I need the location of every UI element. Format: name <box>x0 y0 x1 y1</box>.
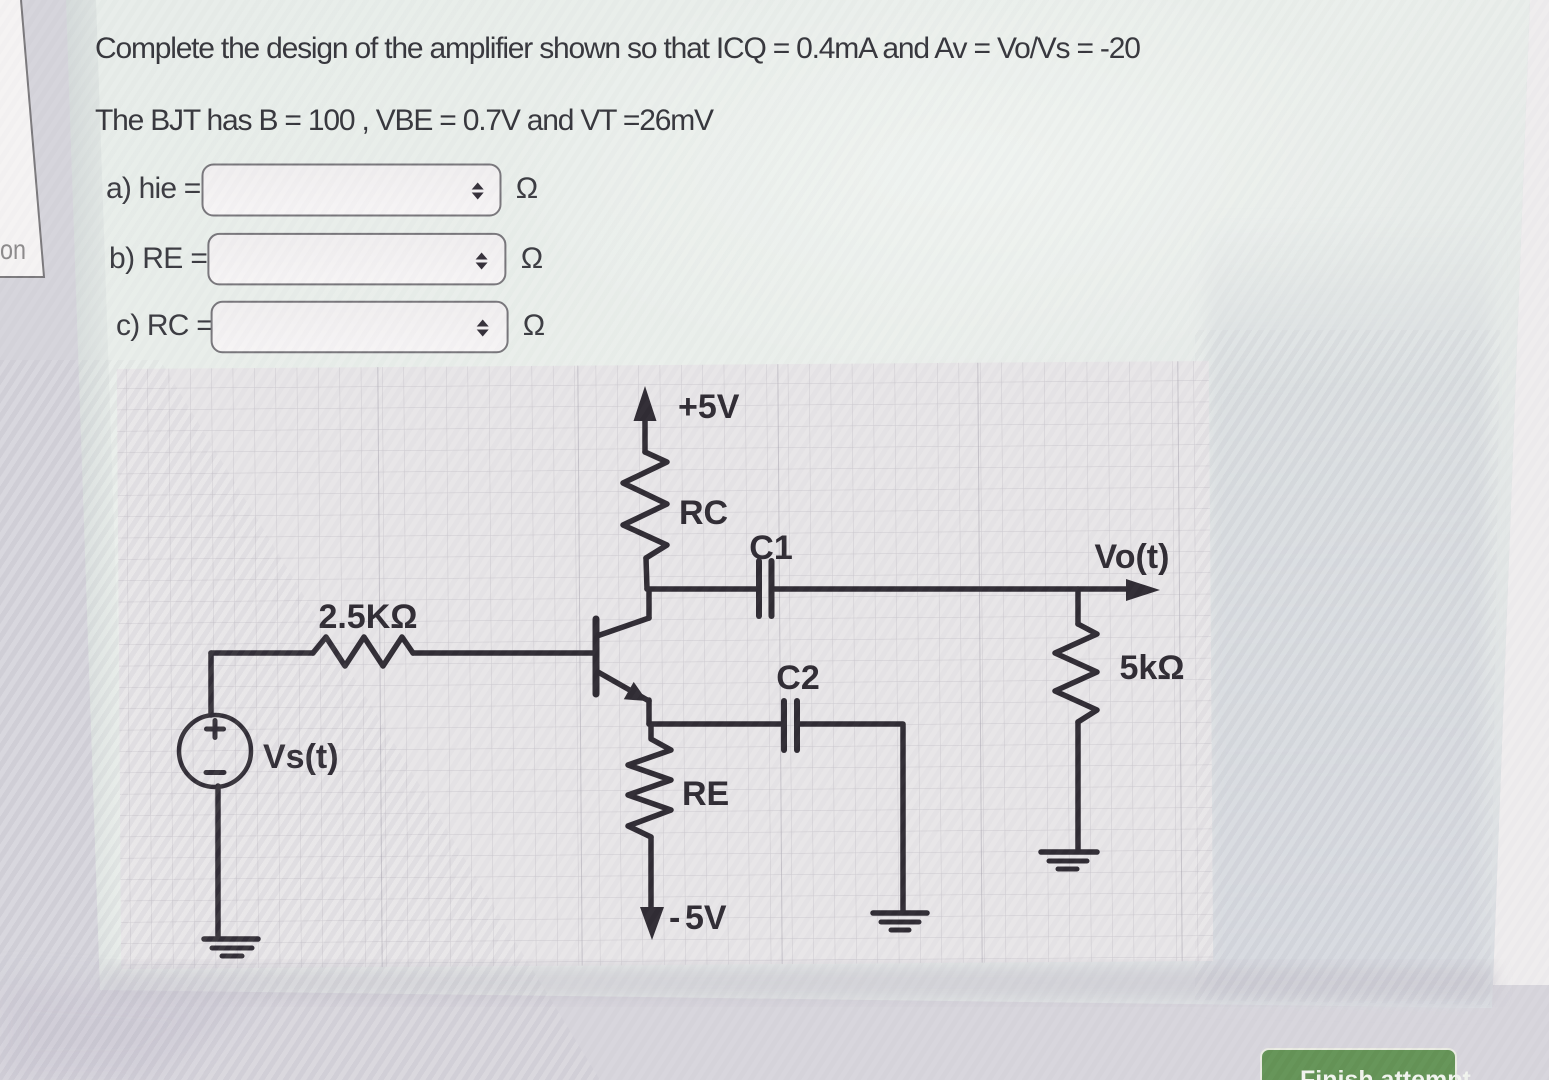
wire RE to -5V arrow <box>648 837 654 908</box>
svg-text:Finish attempt ...: Finish attempt ... <box>1300 1066 1499 1080</box>
svg-text:5kΩ: 5kΩ <box>1119 649 1184 687</box>
capacitor C1 <box>759 561 772 616</box>
svg-text:C1: C1 <box>749 529 792 567</box>
right whitish margin <box>1470 0 1549 1080</box>
finish attempt button <box>1261 1049 1499 1080</box>
resistor RC zigzag <box>623 452 667 558</box>
svg-text:+5V: +5V <box>678 388 740 426</box>
resistor 5k zigzag <box>1055 624 1097 722</box>
wire C2 to ground drop <box>797 724 903 912</box>
right column darker overlay <box>1207 215 1492 1006</box>
wire base left segment <box>211 650 313 656</box>
wire Vs bottom <box>215 786 221 938</box>
wire C1 to output <box>772 586 1129 592</box>
svg-text:Vs(t): Vs(t) <box>263 738 339 776</box>
input box a <box>203 165 501 216</box>
wire 5k top <box>1075 589 1081 624</box>
plus sign <box>207 721 224 738</box>
wire base right segment <box>413 650 593 656</box>
bottom band <box>0 985 1549 1080</box>
wire collector node to C1 <box>647 586 757 592</box>
svg-text:5V: 5V <box>685 899 727 937</box>
resistor Rs 2.5K zigzag <box>313 637 413 666</box>
svg-text:Ω: Ω <box>523 309 545 342</box>
-5V supply arrow <box>640 907 664 940</box>
wire 5k bottom <box>1075 722 1081 851</box>
capacitor C2 <box>784 701 797 750</box>
ground Vs <box>204 939 258 956</box>
spinner a <box>472 183 484 200</box>
svg-text:-: - <box>669 899 680 937</box>
wire collector vertical <box>646 558 647 589</box>
svg-text:C2: C2 <box>776 659 819 697</box>
top-left white card <box>0 0 44 277</box>
content left edge shade <box>66 0 130 990</box>
wire Vs top <box>208 653 214 715</box>
svg-text:Ω: Ω <box>516 172 538 205</box>
glare highlight <box>480 0 1440 380</box>
source Vs circle <box>179 715 251 787</box>
minus sign <box>206 770 224 775</box>
spinner b <box>476 253 488 270</box>
spinner c <box>477 320 489 337</box>
input box c <box>212 302 508 353</box>
shadow under circuit panel <box>105 966 1495 1000</box>
input box b <box>208 234 505 285</box>
svg-text:on: on <box>0 234 26 265</box>
svg-text:2.5KΩ: 2.5KΩ <box>318 598 417 636</box>
svg-text:a) hie =: a) hie = <box>106 172 201 205</box>
wire emitter node to C2 <box>649 721 783 727</box>
svg-text:Vo(t): Vo(t) <box>1095 538 1170 576</box>
svg-text:RC: RC <box>679 494 728 532</box>
circuit grid panel <box>117 361 1213 969</box>
svg-text:Ω: Ω <box>521 242 543 275</box>
circuit labels <box>263 388 1185 937</box>
svg-text:RE: RE <box>682 775 729 813</box>
svg-text:c) RC =: c) RC = <box>116 309 213 342</box>
transistor Q1 <box>596 589 649 724</box>
svg-text:Complete the design of the amp: Complete the design of the amplifier sho… <box>95 32 1140 65</box>
ground load <box>1041 852 1097 869</box>
output arrow Vo <box>1126 579 1160 601</box>
+5V supply arrow <box>634 386 657 452</box>
svg-text:b) RE =: b) RE = <box>109 242 207 275</box>
svg-text:The BJT has B = 100 , VBE = 0.: The BJT has B = 100 , VBE = 0.7V and VT … <box>95 104 714 137</box>
resistor RE zigzag <box>628 724 671 837</box>
ground C2 <box>873 913 927 930</box>
